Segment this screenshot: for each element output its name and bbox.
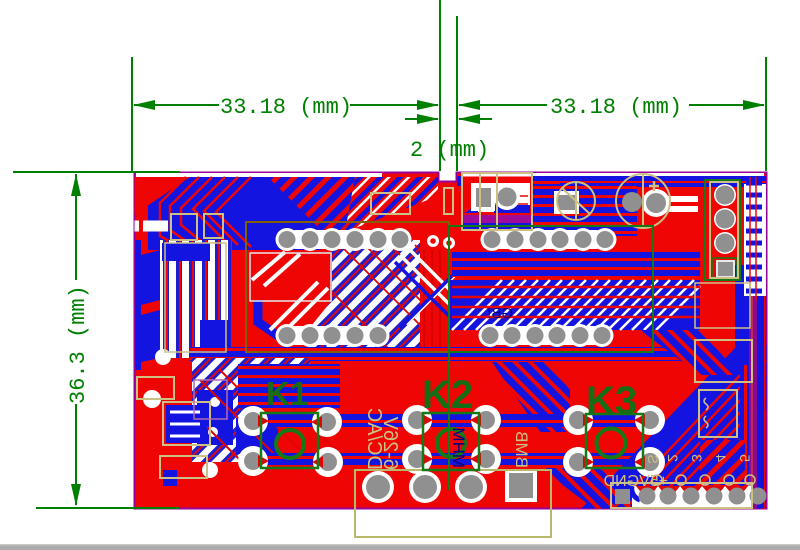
svg-text:BMB: BMB <box>512 431 531 468</box>
svg-text:3: 3 <box>689 454 705 462</box>
svg-text:GB!: GB! <box>487 305 513 322</box>
svg-text:36.3 (mm): 36.3 (mm) <box>66 285 91 404</box>
svg-text:S: S <box>645 455 661 464</box>
svg-text:K1: K1 <box>266 375 308 412</box>
svg-text:2: 2 <box>665 454 681 462</box>
svg-text:5: 5 <box>737 454 753 462</box>
svg-text:4: 4 <box>713 454 729 462</box>
svg-text:K2: K2 <box>422 373 473 417</box>
svg-text:K3: K3 <box>586 379 637 423</box>
svg-text:33.18 (mm): 33.18 (mm) <box>220 95 352 120</box>
svg-text:33.18 (mm): 33.18 (mm) <box>550 95 682 120</box>
svg-text:2 (mm): 2 (mm) <box>410 138 489 163</box>
svg-text:MHM: MHM <box>449 427 468 468</box>
svg-text:DC/AC: DC/AC <box>363 408 385 470</box>
